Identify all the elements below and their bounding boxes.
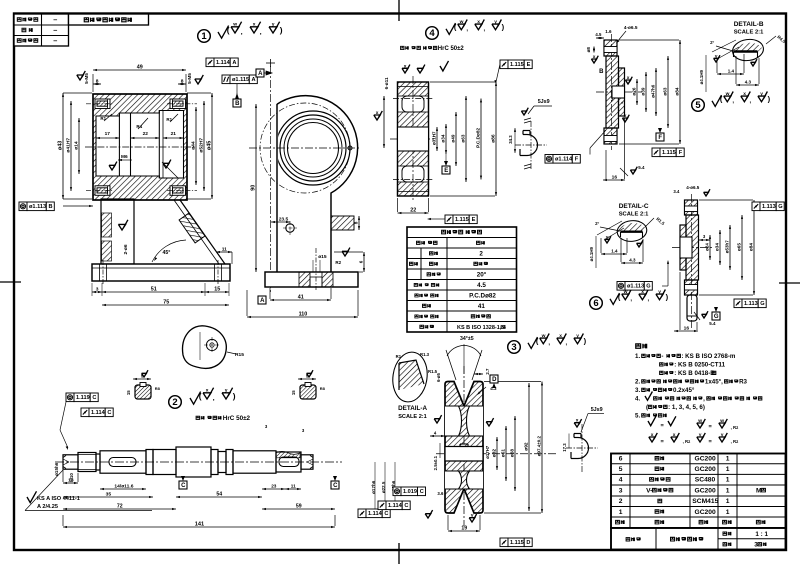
part 4 frame 1.115 E bottom xyxy=(445,215,453,224)
cover6 lower neck xyxy=(687,295,697,321)
svg-text:KS B ISO 1328-1, 4: KS B ISO 1328-1, 4 xyxy=(457,325,507,331)
svg-text:1.4: 1.4 xyxy=(611,249,618,254)
svg-text:ø45: ø45 xyxy=(206,141,212,150)
part 3 frames left (shaft side) xyxy=(393,487,401,496)
svg-text:GC200: GC200 xyxy=(695,509,716,516)
cover5 flange plate xyxy=(606,56,619,128)
part 6 frame runout 1.113 G right xyxy=(734,299,742,308)
cover5 vertical centerline xyxy=(611,34,613,150)
svg-text:2°: 2° xyxy=(710,40,714,45)
svg-text:: 1, 3, 4, 5, 6): : 1, 3, 4, 5, 6) xyxy=(668,404,705,411)
cover6 horizontal centerline xyxy=(672,247,714,249)
svg-text:ø4.1H9: ø4.1H9 xyxy=(699,69,704,84)
part 2 datum C boxes xyxy=(179,481,187,489)
part 1 datum B leader xyxy=(236,84,238,99)
side view body outline xyxy=(277,96,358,272)
svg-text:4: 4 xyxy=(619,477,623,484)
svg-text:F: F xyxy=(679,150,683,156)
svg-text:17: 17 xyxy=(105,131,111,137)
part 1 right dimension o45 xyxy=(211,93,213,199)
pulley keyway notch in bore xyxy=(460,446,468,448)
svg-text:C: C xyxy=(181,483,186,489)
pulley upper web hatched column xyxy=(459,406,470,436)
svg-text:DETAIL-A: DETAIL-A xyxy=(398,405,427,412)
svg-text:x: x xyxy=(477,20,480,25)
svg-text:y: y xyxy=(225,388,228,393)
svg-text:4: 4 xyxy=(429,28,435,39)
svg-text:C: C xyxy=(384,511,388,517)
svg-text:M10: M10 xyxy=(69,473,74,482)
svg-text:1 : 1: 1 : 1 xyxy=(755,531,768,538)
svg-text:6: 6 xyxy=(619,456,623,463)
svg-text:141: 141 xyxy=(195,522,204,528)
frame centering tick right xyxy=(779,282,800,284)
side view vertical centerline xyxy=(270,66,272,292)
part 1 left dimension o41H7 xyxy=(70,101,72,191)
svg-text:x: x xyxy=(206,388,209,393)
part 1 right dimension o44 xyxy=(195,107,197,185)
part 2 right keyway local section xyxy=(279,457,299,467)
svg-text:4-ø6.5: 4-ø6.5 xyxy=(624,25,638,30)
part 1 balloon number and roughness symbols xyxy=(198,30,211,43)
svg-text:4.5: 4.5 xyxy=(477,282,486,289)
svg-text:6-ø11: 6-ø11 xyxy=(384,77,389,89)
gear bottom width dim 22 xyxy=(398,212,429,214)
part 4 frame 1.115 E top-right xyxy=(500,60,508,69)
svg-text:,: , xyxy=(703,396,705,403)
svg-text:y: y xyxy=(658,290,661,295)
detail A balloon xyxy=(390,350,431,404)
part 1 cover recess top-right with screw xyxy=(170,99,186,109)
svg-text:R15: R15 xyxy=(235,352,244,358)
svg-text:1.115: 1.115 xyxy=(510,540,524,546)
svg-text:3.: 3. xyxy=(635,387,640,394)
pulley bore diameter label o17H7 xyxy=(485,445,490,459)
pulley upper web recesses white with curved flanks xyxy=(445,406,483,436)
svg-text:B: B xyxy=(49,204,53,210)
svg-text:1.114: 1.114 xyxy=(91,410,106,416)
svg-text:16: 16 xyxy=(684,326,690,332)
part 2 overall dim 141 xyxy=(63,526,335,528)
svg-text:G: G xyxy=(646,284,650,290)
svg-text:R1: R1 xyxy=(166,117,172,122)
svg-text:2: 2 xyxy=(172,397,177,408)
svg-text:E: E xyxy=(527,62,531,68)
svg-text:: KS B 0418-B: : KS B 0418-B xyxy=(674,370,715,377)
frame centering tick bottom xyxy=(398,543,400,564)
part 1 rib diagonal xyxy=(180,200,225,264)
svg-text:4.: 4. xyxy=(635,396,640,403)
svg-text:1: 1 xyxy=(726,466,730,473)
pulley outline xyxy=(445,382,483,514)
part 2 feature frame 1.119 C xyxy=(66,393,74,402)
cam plate shape above shaft xyxy=(183,326,227,369)
pulley hub hatch lower xyxy=(445,461,483,471)
svg-text:5Js9: 5Js9 xyxy=(538,99,550,105)
svg-text:ø1.113: ø1.113 xyxy=(627,284,644,290)
svg-text:ø26: ø26 xyxy=(631,87,636,95)
svg-text:5.4: 5.4 xyxy=(709,321,716,326)
svg-text:1: 1 xyxy=(726,509,730,516)
spur gear data table xyxy=(407,227,517,332)
svg-text:SCALE 2:1: SCALE 2:1 xyxy=(619,212,649,218)
svg-text:ø63: ø63 xyxy=(460,134,465,142)
surface roughness legend symbols row 2 xyxy=(649,437,655,442)
detail C hub material hatch (top half) xyxy=(618,223,646,232)
svg-text:SCALE 2:1: SCALE 2:1 xyxy=(734,30,764,36)
svg-text:-: - xyxy=(661,353,663,360)
gear web recess bottom (white) xyxy=(402,166,424,182)
svg-text:6: 6 xyxy=(358,260,363,263)
svg-text:C: C xyxy=(404,503,408,509)
side view bottom dim 41 xyxy=(258,296,266,304)
part 1 hub horizontal centerline xyxy=(85,146,196,148)
cover5 top bolt lug xyxy=(604,40,617,56)
part 1 rib angle dimension arc xyxy=(152,240,186,262)
svg-text:4.3: 4.3 xyxy=(745,80,752,85)
svg-text:2: 2 xyxy=(619,498,623,505)
svg-text:E: E xyxy=(472,217,476,223)
svg-text:45°: 45° xyxy=(163,250,171,256)
svg-text:R1.3: R1.3 xyxy=(420,352,430,357)
cover6 flange plate xyxy=(686,215,699,280)
svg-text:1: 1 xyxy=(201,31,207,42)
svg-text:R1.5: R1.5 xyxy=(428,369,438,374)
svg-text:3: 3 xyxy=(96,287,99,293)
svg-text:y: y xyxy=(494,20,497,25)
part 2 left keyway slot xyxy=(109,458,136,467)
gear vertical centerline xyxy=(412,76,414,202)
examinee info table xyxy=(14,14,69,46)
svg-text:1.115: 1.115 xyxy=(510,62,524,68)
svg-text:51: 51 xyxy=(151,287,157,293)
part 4 datum E box xyxy=(442,166,450,174)
svg-text:F: F xyxy=(658,135,662,141)
svg-text:,: , xyxy=(241,29,243,36)
svg-text:x: x xyxy=(576,419,579,424)
part 6 datum G box xyxy=(712,312,720,320)
svg-text:110: 110 xyxy=(299,312,308,318)
svg-text:2: 2 xyxy=(479,250,483,257)
part 2 keyway cross-section detail right xyxy=(300,385,316,399)
general notes (juseo) xyxy=(636,344,641,348)
svg-text:ø34: ø34 xyxy=(440,134,445,142)
svg-text:41: 41 xyxy=(478,303,486,310)
part 1 base bolt hole centerlines xyxy=(102,260,104,285)
svg-text:ø15: ø15 xyxy=(318,254,327,260)
part 1 feature frame parallel o1.115 A xyxy=(222,75,230,84)
svg-text:GC200: GC200 xyxy=(695,488,716,495)
svg-text:ø53h7: ø53h7 xyxy=(724,240,729,254)
svg-text:15: 15 xyxy=(214,287,220,293)
side view datum A box top xyxy=(256,69,264,77)
svg-text:15: 15 xyxy=(126,390,131,395)
svg-text:5.: 5. xyxy=(635,413,640,420)
svg-text:ø92: ø92 xyxy=(523,442,529,451)
svg-text:A 2/4.25: A 2/4.25 xyxy=(37,504,58,510)
svg-text:ø34: ø34 xyxy=(714,243,719,251)
svg-text:HrC 50±2: HrC 50±2 xyxy=(223,415,251,422)
pulley top rim hatch right xyxy=(465,382,483,407)
svg-text:4-ø6.5: 4-ø6.5 xyxy=(686,185,700,190)
cover6 bottom dim 16 xyxy=(674,330,698,332)
svg-text:x: x xyxy=(593,55,596,60)
svg-text:2°: 2° xyxy=(595,221,599,226)
svg-text:2.: 2. xyxy=(635,379,640,386)
gear hatch upper hub xyxy=(398,112,429,127)
svg-text:DETAIL-C: DETAIL-C xyxy=(619,203,649,210)
side view bore circle white xyxy=(288,123,339,174)
part 1 left dimension o43 xyxy=(62,93,64,199)
part 1 bottom overall dim 75 xyxy=(102,304,229,306)
pulley top rim hatch left xyxy=(445,382,463,407)
svg-text:): ) xyxy=(233,391,236,401)
svg-text:ø49: ø49 xyxy=(450,134,455,142)
pulley right diameter dims xyxy=(496,437,498,470)
detail B key seat thick line xyxy=(734,50,758,52)
part 6 frame runout 1.113 G top-right xyxy=(752,202,760,211)
svg-text:22: 22 xyxy=(410,208,416,214)
svg-text:1.113: 1.113 xyxy=(744,301,758,307)
part 3 balloon number and roughness symbols xyxy=(508,341,521,354)
svg-text:y: y xyxy=(699,433,702,438)
part 1 web below hub xyxy=(101,199,134,264)
detail B balloon xyxy=(731,37,765,62)
surface roughness legend symbols row 1 xyxy=(648,416,656,425)
svg-text:, Rz: , Rz xyxy=(731,439,739,444)
svg-text:1.114: 1.114 xyxy=(388,503,403,509)
detail B labels xyxy=(776,34,787,44)
svg-text:ø4.1H9: ø4.1H9 xyxy=(589,246,594,261)
svg-text:x: x xyxy=(627,76,630,81)
cover6 pilot boss left xyxy=(680,225,686,270)
part 1 datum frame concentric o1.113 B (left margin) xyxy=(19,202,27,211)
side view left dim 90 xyxy=(255,104,257,272)
part 1 bore internal dim line xyxy=(96,137,119,139)
cover5 bottom bolt lug xyxy=(604,128,617,144)
svg-text:E: E xyxy=(444,168,448,174)
side view rib section hatch band xyxy=(331,216,354,230)
part 2 right rotated diameter labels xyxy=(371,480,376,494)
gear bore white band xyxy=(398,127,429,151)
svg-text:ø43: ø43 xyxy=(57,141,63,150)
svg-text:y: y xyxy=(606,235,609,240)
svg-text:5: 5 xyxy=(619,466,623,473)
svg-text:ø84: ø84 xyxy=(674,87,679,95)
svg-text:x: x xyxy=(743,92,746,97)
svg-text:34°±5: 34°±5 xyxy=(460,336,474,342)
part 2 feature frame 1.114 C xyxy=(81,408,89,417)
svg-text:4.5: 4.5 xyxy=(595,32,602,37)
gear top roughness checks xyxy=(402,68,408,73)
svg-text:3: 3 xyxy=(619,488,623,495)
cover5 center bore recess xyxy=(612,86,625,98)
svg-text:x: x xyxy=(404,64,407,69)
svg-text:w: w xyxy=(725,92,730,97)
svg-text:R2: R2 xyxy=(335,260,341,265)
svg-text:x: x xyxy=(376,111,379,116)
svg-text:5-M5: 5-M5 xyxy=(187,73,192,84)
part 2 center drill marks xyxy=(63,459,69,462)
svg-text:34.3: 34.3 xyxy=(508,135,513,144)
svg-text:G: G xyxy=(760,301,764,307)
part 6 balloon number and roughness symbols xyxy=(590,297,603,310)
svg-text:1: 1 xyxy=(726,477,730,484)
part 4 gear heat treat note xyxy=(401,46,404,49)
part 1 tapped hole centerlines xyxy=(86,103,113,105)
svg-text:15: 15 xyxy=(291,390,296,395)
pulley lower web hatched column xyxy=(459,471,470,489)
svg-text:w: w xyxy=(719,419,724,424)
pulley groove angle dim fan xyxy=(446,350,456,380)
svg-text:R4: R4 xyxy=(136,124,142,129)
svg-text:ø65: ø65 xyxy=(736,243,741,251)
part 1 left dimension o14 xyxy=(78,118,80,174)
svg-text:1.119: 1.119 xyxy=(76,395,90,401)
gear tooth tip lines xyxy=(398,86,429,88)
part 5 balloon number and roughness symbols xyxy=(692,99,705,112)
pulley vertical centerline xyxy=(463,366,465,526)
part 2 shaft profile steps xyxy=(63,455,78,469)
svg-text:ø1.115: ø1.115 xyxy=(232,77,249,83)
svg-text:19: 19 xyxy=(461,526,467,532)
svg-text:–: – xyxy=(53,15,57,24)
side view horizontal centerline xyxy=(249,147,361,149)
part 1 base plate xyxy=(92,264,230,281)
cover6 vertical centerline xyxy=(691,194,693,330)
svg-text:x: x xyxy=(559,334,562,339)
svg-text:R8: R8 xyxy=(155,386,161,391)
part 1 cover recess top-left with screw xyxy=(95,99,110,109)
gear hatch top rim xyxy=(398,82,429,96)
svg-text:ø1.113: ø1.113 xyxy=(29,204,46,210)
title box: exam name xyxy=(69,14,149,25)
part 2 thread minor lines xyxy=(78,454,96,456)
side view base plate xyxy=(265,272,358,287)
svg-text:HrC 50±2: HrC 50±2 xyxy=(438,46,465,52)
gear keyway line xyxy=(402,126,424,128)
svg-text:21: 21 xyxy=(171,131,177,137)
svg-text:ø41H7: ø41H7 xyxy=(65,138,71,153)
detail C key seat thick line xyxy=(621,230,643,232)
svg-text:0.2x45°: 0.2x45° xyxy=(673,387,695,394)
svg-text:1.115: 1.115 xyxy=(662,150,676,156)
part 1 rib rotated section hatch xyxy=(179,213,205,243)
svg-text:A: A xyxy=(232,60,236,66)
svg-text:C: C xyxy=(107,410,111,416)
gear web recess top (white) xyxy=(402,96,424,112)
part 2 center hole leader note xyxy=(27,491,37,502)
svg-text:w: w xyxy=(541,334,546,339)
svg-text:–: – xyxy=(53,25,57,34)
pulley bottom rim hatch right xyxy=(465,489,483,513)
svg-text:11: 11 xyxy=(222,247,227,253)
svg-text:x: x xyxy=(673,433,676,438)
cover5 horizontal centerline xyxy=(596,91,642,93)
svg-text:1.115: 1.115 xyxy=(455,217,469,223)
svg-text:1.113: 1.113 xyxy=(762,204,776,210)
part 1 bore roughness checks xyxy=(109,165,115,170)
svg-text:GC200: GC200 xyxy=(695,456,716,463)
side view bolt circle dash-dot xyxy=(260,103,350,193)
svg-text:ø51: ø51 xyxy=(500,449,506,458)
svg-text:35: 35 xyxy=(106,492,112,498)
part 1 top dimension 49 xyxy=(93,69,186,71)
part 2 balloon number and roughness symbols xyxy=(169,396,182,409)
svg-text:x: x xyxy=(651,433,654,438)
pulley horizontal centerline xyxy=(436,453,556,455)
svg-text:1: 1 xyxy=(619,509,623,516)
svg-text:: KS B ISO 2768-m: : KS B ISO 2768-m xyxy=(681,353,735,360)
svg-text:ø31H7: ø31H7 xyxy=(431,131,436,145)
svg-text:C: C xyxy=(420,489,424,495)
part 2 frame right 1.114 C xyxy=(358,509,366,518)
svg-text:V-: V- xyxy=(646,488,652,495)
svg-text:5: 5 xyxy=(695,100,701,111)
side view base hatched sections xyxy=(299,272,310,287)
part 3 bore keyway detail xyxy=(578,438,589,459)
svg-text:1: 1 xyxy=(726,456,730,463)
svg-text:20°: 20° xyxy=(477,270,487,278)
svg-text:ø63: ø63 xyxy=(662,87,667,95)
svg-text:A: A xyxy=(252,77,256,83)
pulley left small dim labels xyxy=(436,372,441,381)
svg-text:1x45°,: 1x45°, xyxy=(705,379,723,386)
svg-text:ø86: ø86 xyxy=(490,134,496,143)
svg-text:ø24: ø24 xyxy=(704,243,709,251)
pulley bottom dim 19 xyxy=(448,530,480,532)
part 2 shaft centerline xyxy=(55,461,342,463)
svg-text:8: 8 xyxy=(353,221,358,224)
side view base bolt hole lines xyxy=(315,248,317,290)
gear axis centerline xyxy=(390,138,434,140)
part 1 bore step lines xyxy=(118,113,120,176)
svg-text:ø68: ø68 xyxy=(509,449,515,458)
part 2 left rotated diameter labels xyxy=(54,462,59,476)
svg-text:8: 8 xyxy=(96,79,99,85)
gear outline xyxy=(398,82,429,196)
gear right diameter dims xyxy=(436,127,438,151)
svg-text:75: 75 xyxy=(163,300,169,306)
part 1 top roughness checks xyxy=(77,75,83,80)
svg-text:R3: R3 xyxy=(739,379,747,386)
svg-text:59: 59 xyxy=(296,504,302,510)
part 1 feature frame runout 1.114 A xyxy=(206,58,214,67)
svg-text:A: A xyxy=(260,298,265,304)
part 1 cover recess bottom-right with screw xyxy=(170,186,186,196)
svg-text:41: 41 xyxy=(298,295,304,301)
svg-text:B: B xyxy=(235,101,240,107)
svg-text:: KS B 0250-CT11: : KS B 0250-CT11 xyxy=(674,362,725,369)
part 1 bore cavity (white) xyxy=(96,111,184,179)
svg-text:P.C.Dø82: P.C.Dø82 xyxy=(475,128,480,148)
svg-text:ø14: ø14 xyxy=(73,141,79,150)
parts list table xyxy=(611,454,786,529)
svg-text:(: ( xyxy=(227,25,230,35)
detail B hub material hatch (top half of ellipse) xyxy=(734,43,762,53)
svg-text:5Js9: 5Js9 xyxy=(591,407,603,413)
svg-text:22: 22 xyxy=(143,131,149,137)
part 6 frame concentric o1.113 G (above) xyxy=(617,282,625,291)
svg-text:49: 49 xyxy=(137,65,143,71)
gear hatch lower hub xyxy=(398,151,429,166)
pulley lower web recesses white xyxy=(445,471,483,489)
part 1 hub outer rectangle with hatching xyxy=(93,94,187,200)
pulley top small dims xyxy=(485,368,490,375)
svg-text:72: 72 xyxy=(117,504,123,510)
svg-text:ø32: ø32 xyxy=(491,449,497,458)
svg-text:16: 16 xyxy=(612,175,618,181)
